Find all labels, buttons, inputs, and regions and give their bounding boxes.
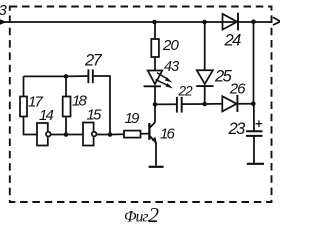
capacitor C27 — [88, 69, 92, 83]
svg-text:14: 14 — [39, 107, 54, 124]
transistor Q16 (NPN) — [149, 104, 157, 165]
svg-text:16: 16 — [160, 125, 176, 142]
svg-text:43: 43 — [164, 59, 179, 75]
wire: resistor 17 top lead — [23, 76, 25, 96]
wire: R19 left lead — [110, 133, 124, 135]
resistor R17 — [20, 97, 27, 117]
svg-text:22: 22 — [178, 84, 194, 99]
wire: cap 22 left lead — [155, 103, 177, 105]
wire: cap 23 to ground — [253, 136, 255, 163]
ground (cap 23) — [247, 163, 264, 165]
inverter gate 15 — [83, 123, 96, 146]
wire: diode 26 cathode to node — [237, 103, 253, 105]
diode 24 — [223, 13, 239, 31]
wire: node to cap 23 — [253, 104, 255, 131]
wire: diode 25 top lead — [204, 22, 206, 70]
output arrow — [273, 17, 280, 25]
capacitor C23 (electrolytic) — [246, 120, 263, 135]
LED 43 — [144, 71, 173, 89]
wire: diode 26 anode lead — [205, 103, 223, 105]
wire: resistor 18 bottom lead — [65, 117, 67, 135]
resistor R18 — [63, 97, 71, 117]
svg-text:2: 2 — [149, 203, 160, 225]
wire: left upper rail — [24, 75, 67, 77]
node: R17/R18/C27 — [64, 74, 69, 79]
inverter gate 14 — [37, 123, 51, 146]
wire: cap 27 left lead — [66, 75, 88, 77]
ground (emitter) — [149, 166, 164, 168]
node: top rail / diode 25 branch — [202, 20, 207, 25]
resistor R20 — [151, 39, 159, 57]
wire: R19 to base — [141, 133, 150, 135]
enclosure dashed boundary box — [10, 7, 272, 203]
svg-text:20: 20 — [162, 37, 179, 54]
svg-text:27: 27 — [84, 52, 103, 70]
capacitor C22 — [177, 97, 182, 113]
node: diode 26 / right rail — [251, 102, 256, 107]
node: cap22 / diode25 / diode26 — [202, 102, 207, 107]
wire: LED cathode to collector node — [154, 86, 156, 104]
input arrow — [0, 19, 7, 25]
wire: resistor 20 top lead — [154, 22, 156, 39]
svg-text:13: 13 — [0, 2, 7, 19]
wire: resistor 18 top lead — [65, 76, 67, 96]
svg-text:24: 24 — [224, 32, 242, 50]
svg-text:Фиг.: Фиг. — [124, 209, 150, 226]
node: LED / collector / cap 22 — [153, 102, 158, 107]
svg-text:18: 18 — [72, 93, 88, 110]
diode 25 — [196, 70, 213, 86]
node: top rail right of diode 24 — [251, 19, 256, 24]
wire: top supply rail — [0, 21, 272, 23]
wire: gate 14 output — [51, 134, 66, 136]
wire: diode 25 cathode to node — [204, 86, 206, 104]
resistor R19 — [124, 131, 141, 138]
wire: right rail vertical — [253, 22, 255, 104]
diode 26 — [222, 95, 237, 112]
wire: cap 27 right lead down to bottom rail — [93, 76, 110, 135]
wire: resistor 20 to LED — [154, 57, 156, 71]
svg-text:19: 19 — [125, 110, 141, 127]
wire: cap 22 right lead — [182, 103, 205, 105]
node: gate15 out / C27 / R19 — [108, 132, 113, 137]
wire: gate 15 output — [96, 134, 110, 136]
svg-text:15: 15 — [87, 107, 103, 124]
svg-text:23: 23 — [228, 120, 247, 138]
wire: resistor 17 bottom lead — [24, 117, 38, 135]
node: gate14 out / R18 / gate15 in — [64, 132, 69, 137]
svg-text:26: 26 — [229, 81, 246, 98]
wire: gate 15 input — [66, 134, 83, 136]
node: top rail / resistor 20 branch — [152, 20, 157, 25]
